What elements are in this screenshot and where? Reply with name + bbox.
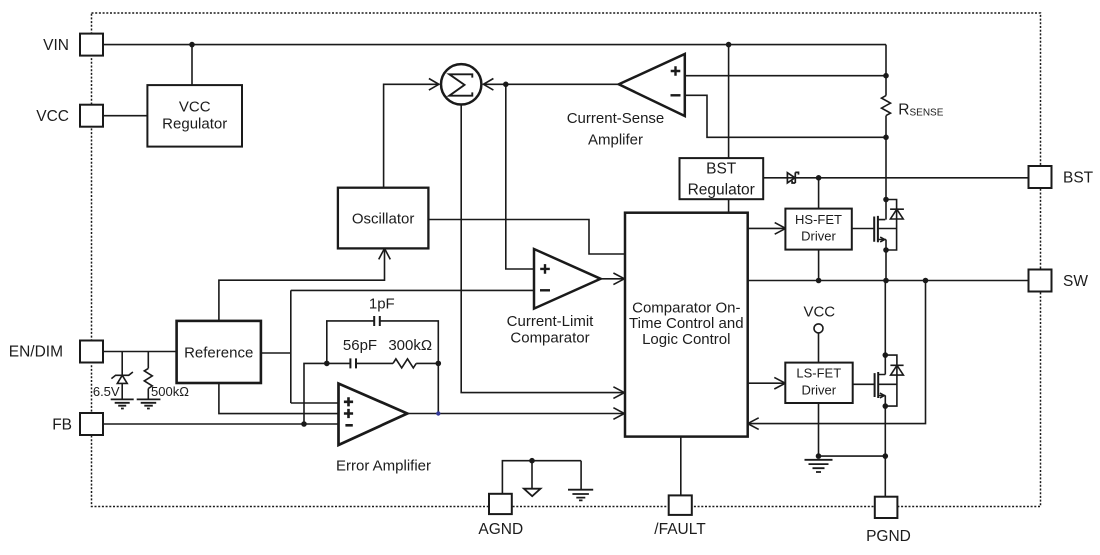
- svg-text:RSENSE: RSENSE: [898, 102, 943, 119]
- sigma glyph: [449, 74, 472, 95]
- plus sign CLC: [540, 264, 550, 274]
- block Comparator On-Time Control and Logic Control: [625, 213, 748, 437]
- svg-text:Regulator: Regulator: [688, 181, 755, 198]
- wire earth ground stub: [580, 461, 582, 490]
- wire HS driver to HS FET gate: [852, 228, 874, 230]
- wire SW return to logic box: [748, 281, 926, 424]
- svg-text:BST: BST: [1063, 170, 1094, 187]
- wire VIN top rail: [103, 44, 886, 46]
- arrow into logic box right (return): [748, 418, 759, 430]
- wire oscillator top to summing node: [384, 84, 439, 187]
- IC boundary dashed border: [92, 13, 1041, 507]
- svg-text:6.5V: 6.5V: [93, 384, 120, 399]
- svg-text:PGND: PGND: [866, 528, 911, 545]
- wire logic box to /FAULT pin: [680, 437, 682, 495]
- pin VIN: [80, 34, 103, 56]
- block Oscillator: [338, 188, 429, 249]
- plus sign EA1: [344, 397, 353, 406]
- pin /FAULT: [669, 495, 692, 515]
- wire LS driver bottom to ground: [818, 403, 820, 456]
- node junction AGND rail: [530, 459, 534, 463]
- wire vertical reference net: [290, 290, 292, 403]
- arrow into sigma left: [429, 79, 439, 91]
- pin SW: [1029, 270, 1052, 292]
- svg-text:Current-Sense: Current-Sense: [567, 110, 665, 127]
- pin FB: [80, 413, 103, 435]
- svg-text:300kΩ: 300kΩ: [388, 337, 432, 354]
- wire HS driver bottom to SW rail: [818, 250, 820, 281]
- transistor HS-FET: [874, 216, 896, 281]
- svg-text:Amplifer: Amplifer: [588, 132, 643, 149]
- node junction RSENSE bottom / CSA-: [884, 135, 888, 139]
- svg-text:Driver: Driver: [801, 382, 836, 397]
- arrow into logic box (error amp output): [613, 408, 624, 420]
- wire top rail to BST Regulator top: [728, 45, 730, 159]
- wire SW rail: [748, 280, 1029, 282]
- svg-text:Reference: Reference: [184, 345, 253, 362]
- wire LS drain to SW rail: [884, 281, 886, 375]
- plus sign EA2: [344, 409, 353, 418]
- minus sign CSA: [671, 94, 681, 96]
- node junction PGND: [883, 454, 887, 458]
- pin BST: [1029, 166, 1052, 188]
- wire EN/DIM to Reference: [103, 351, 177, 353]
- node junction SW/feedback return: [924, 279, 928, 283]
- wire VIN to VCC Regulator top: [191, 45, 193, 86]
- wire reference right output: [261, 352, 291, 354]
- node junction HS drain: [884, 198, 888, 202]
- node junction feedback left: [325, 361, 329, 365]
- transistor LS-FET: [875, 372, 897, 398]
- arrow into oscillator bottom: [379, 248, 391, 259]
- block HS-FET Driver: [785, 209, 851, 250]
- svg-text:HS-FET: HS-FET: [795, 212, 842, 227]
- wire resistor 500k branch upper: [147, 352, 149, 369]
- node junction SW/HS driver: [817, 279, 821, 283]
- svg-text:SW: SW: [1063, 273, 1088, 290]
- node junction RSENSE top / CSA+: [884, 74, 888, 78]
- wire reference bottom to error amp +2 input: [219, 383, 339, 414]
- wire BST regulator to BST pin: [763, 177, 1028, 179]
- wire 56pF to 300k: [356, 362, 393, 364]
- wire error amp +1 input: [291, 402, 339, 404]
- wire resistor 500k to ground: [147, 389, 149, 400]
- diode BST (schottky): [787, 172, 798, 183]
- wire oscillator output to logic box: [428, 220, 625, 255]
- wire BST line to HS driver top: [818, 178, 820, 209]
- node junction SW/HS source: [884, 279, 888, 283]
- wire 300k to right node: [416, 362, 438, 364]
- wire logic box to LS-FET driver: [748, 382, 786, 384]
- wire LS source down to PGND: [884, 396, 886, 497]
- ground signal (open triangle): [524, 489, 541, 497]
- wire CLC output to logic box: [601, 278, 625, 280]
- wire CLC - input: [291, 289, 534, 291]
- svg-text:1pF: 1pF: [369, 296, 395, 313]
- ground below zener: [111, 399, 134, 408]
- capacitor 1pF: [374, 316, 380, 326]
- arrow into logic box (CLC output): [613, 273, 624, 285]
- op-amp error amplifier: [339, 384, 408, 446]
- node junction sigma right / CLC+: [504, 82, 508, 86]
- wire RSENSE lower segment to HS-FET drain: [885, 116, 887, 220]
- block VCC Regulator: [147, 85, 242, 147]
- wire CLC + input from summing wire: [506, 84, 534, 269]
- svg-text:Oscillator: Oscillator: [352, 211, 415, 228]
- wire 1pF branch right: [380, 321, 439, 414]
- svg-text:Comparator On-: Comparator On-: [632, 299, 740, 316]
- node junction error amp output (blue): [436, 411, 440, 415]
- pin EN/DIM: [80, 341, 103, 363]
- block Reference: [177, 321, 261, 383]
- svg-text:VCC: VCC: [36, 108, 69, 125]
- wire CSA - input: [685, 95, 886, 137]
- arrow into HS-FET driver: [775, 223, 786, 235]
- svg-text:AGND: AGND: [478, 521, 523, 538]
- pin PGND: [875, 497, 898, 518]
- minus sign EA: [345, 424, 352, 427]
- svg-text:VIN: VIN: [43, 37, 69, 54]
- wire CSA output to summing node: [483, 83, 618, 85]
- minus sign CLC: [540, 289, 550, 291]
- wire LS driver to LS FET gate: [853, 383, 875, 385]
- body diode LS: [885, 355, 903, 406]
- node junction BST line / HS driver: [817, 176, 821, 180]
- block BST Regulator: [680, 158, 764, 199]
- node junction top rail/BST reg: [727, 43, 731, 47]
- svg-text:BST: BST: [706, 160, 737, 177]
- svg-text:56pF: 56pF: [343, 337, 377, 354]
- svg-text:Time Control and: Time Control and: [629, 315, 744, 332]
- svg-text:FB: FB: [52, 417, 72, 434]
- capacitor 56pF: [350, 358, 356, 368]
- body diode HS: [886, 200, 904, 251]
- wire feedback left vertical: [304, 363, 327, 424]
- wire error amp output: [407, 413, 624, 415]
- wire VCC circle to LS driver top: [818, 333, 820, 363]
- svg-text:500kΩ: 500kΩ: [151, 384, 189, 399]
- wire BST Regulator bottom to logic box top: [728, 199, 730, 213]
- node junction LS drain: [883, 353, 887, 357]
- wire gnd rail to PGND vertical: [819, 455, 886, 457]
- svg-text:Error Amplifier: Error Amplifier: [336, 457, 431, 474]
- svg-text:Driver: Driver: [801, 229, 836, 244]
- svg-text:LS-FET: LS-FET: [796, 366, 841, 381]
- plus sign CSA: [671, 66, 681, 76]
- svg-text:VCC: VCC: [803, 304, 835, 321]
- arrow into sigma right: [483, 79, 493, 91]
- wire signal ground stub: [531, 461, 533, 489]
- ground below 500k resistor: [137, 399, 161, 408]
- block LS-FET Driver: [785, 363, 852, 403]
- wire CSA + input: [685, 75, 886, 77]
- svg-text:Comparator: Comparator: [510, 330, 589, 347]
- summing node sigma circle: [441, 64, 481, 104]
- svg-text:/FAULT: /FAULT: [654, 521, 706, 538]
- wire zener to ground: [121, 383, 123, 399]
- node junction LS driver gnd: [817, 454, 821, 458]
- wire VCC pin to VCC Regulator: [103, 115, 147, 117]
- ground LS driver: [805, 460, 833, 472]
- wire sigma output to logic box: [461, 105, 624, 393]
- wire AGND pin up: [502, 461, 581, 494]
- svg-text:Logic Control: Logic Control: [642, 331, 730, 348]
- resistor RSENSE: [882, 96, 891, 116]
- svg-text:EN/DIM: EN/DIM: [9, 344, 63, 361]
- wire reference top to oscillator bottom: [219, 248, 385, 321]
- wire RSENSE upper segment: [885, 45, 887, 96]
- svg-text:VCC: VCC: [179, 98, 211, 115]
- zener diode 6.5V: [111, 372, 132, 383]
- node junction LS source: [883, 404, 887, 408]
- resistor 300k: [393, 359, 416, 368]
- wire zener branch upper: [121, 352, 123, 376]
- terminal VCC circle: [814, 324, 823, 333]
- pin VCC: [80, 105, 103, 127]
- op-amp current-limit comparator: [534, 249, 601, 309]
- wire 1pF branch left vertical: [327, 321, 374, 364]
- wire FB to error amp - input: [103, 423, 339, 425]
- wire feedback lower branch left: [327, 362, 350, 364]
- wire logic box to HS-FET driver: [748, 227, 786, 229]
- op-amp current-sense amplifier: [619, 54, 685, 116]
- node junction FB / feedback net: [302, 422, 306, 426]
- node junction VIN/VCCreg: [190, 43, 194, 47]
- arrow into logic box (sigma line): [613, 387, 624, 399]
- pin AGND: [489, 494, 512, 514]
- node junction HS source: [884, 248, 888, 252]
- arrow into LS-FET driver: [774, 377, 785, 389]
- resistor 500k: [144, 368, 152, 388]
- svg-text:Current-Limit: Current-Limit: [507, 313, 595, 330]
- node junction feedback right: [436, 361, 440, 365]
- svg-text:Regulator: Regulator: [162, 116, 227, 133]
- ground earth AGND: [568, 490, 593, 501]
